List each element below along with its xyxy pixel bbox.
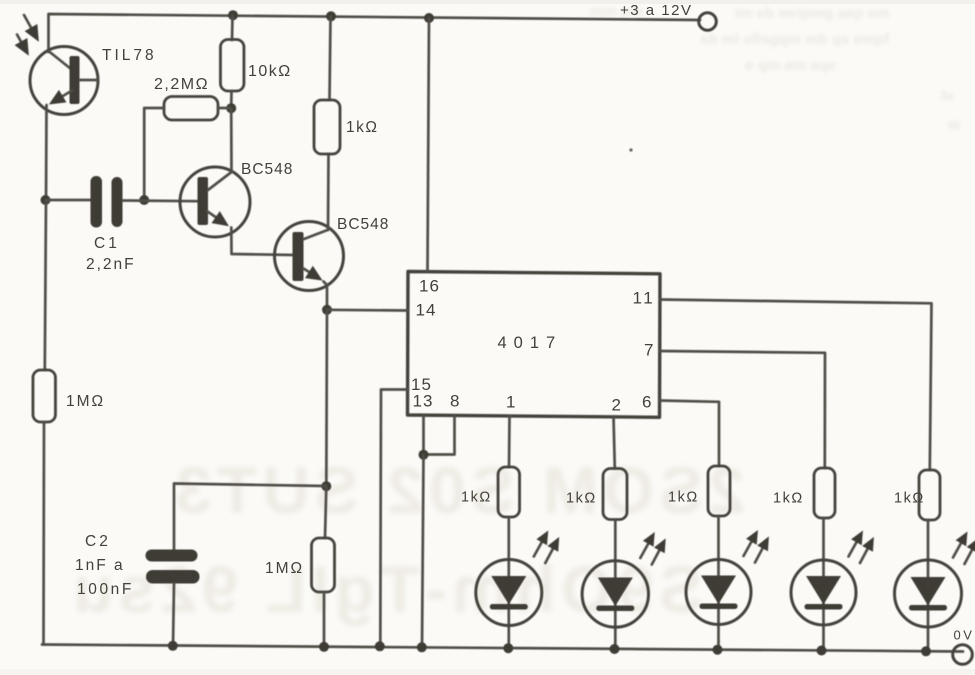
svg-text:1kΩ: 1kΩ: [566, 491, 597, 507]
svg-text:e qm am aqe: e qm am aqe: [745, 57, 836, 74]
svg-text:1nF a: 1nF a: [75, 557, 125, 574]
svg-text:4017: 4017: [498, 334, 563, 352]
svg-text:2: 2: [612, 396, 622, 415]
svg-text:3e: 3e: [940, 88, 954, 103]
svg-text:BC548: BC548: [337, 216, 389, 233]
svg-text:1kΩ: 1kΩ: [346, 119, 378, 136]
svg-text:2,2nF: 2,2nF: [86, 256, 136, 273]
svg-text:BC548: BC548: [241, 161, 293, 178]
svg-text:100nF: 100nF: [77, 581, 134, 598]
svg-text:10kΩ: 10kΩ: [248, 63, 292, 80]
svg-text:11: 11: [633, 289, 656, 308]
svg-text:2,2MΩ: 2,2MΩ: [154, 76, 209, 93]
svg-text:1kΩ: 1kΩ: [773, 491, 804, 507]
svg-text:2SOM S02 SUT3: 2SOM S02 SUT3: [170, 453, 745, 527]
svg-text:1MΩ: 1MΩ: [66, 393, 105, 410]
svg-text:+3 a 12V: +3 a 12V: [620, 2, 692, 19]
svg-text:W: W: [948, 118, 961, 133]
svg-text:1: 1: [506, 393, 516, 412]
svg-text:14: 14: [416, 301, 437, 320]
svg-text:6: 6: [642, 393, 652, 412]
svg-text:16: 16: [419, 277, 440, 296]
svg-text:0V: 0V: [954, 628, 975, 643]
svg-text:C1: C1: [94, 235, 120, 252]
svg-text:1kΩ: 1kΩ: [461, 490, 492, 506]
svg-text:TIL78: TIL78: [102, 47, 157, 64]
svg-text:sb ml ollsgqm mb qs empf: sb ml ollsgqm mb qs empf: [700, 31, 890, 48]
svg-text:im eb mripmg aep em: im eb mripmg aep em: [735, 5, 889, 22]
svg-text:8: 8: [450, 392, 460, 411]
svg-text:1MΩ: 1MΩ: [265, 560, 304, 577]
svg-text:1kΩ: 1kΩ: [894, 491, 925, 507]
svg-text:7: 7: [644, 341, 654, 360]
svg-text:13: 13: [413, 392, 434, 411]
svg-text:1kΩ: 1kΩ: [668, 490, 699, 506]
svg-text:C2: C2: [85, 533, 111, 550]
